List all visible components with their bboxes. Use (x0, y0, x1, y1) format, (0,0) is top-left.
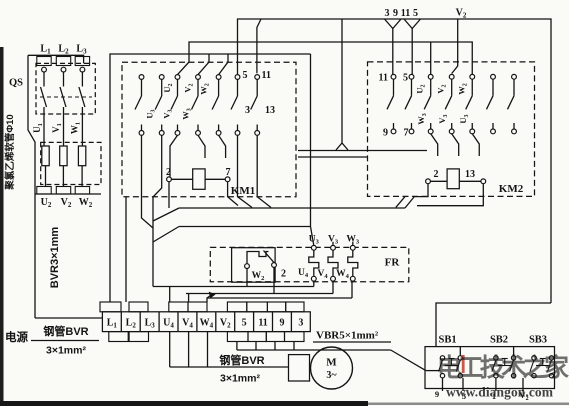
disconnect QS pole 2 blade (63, 72, 65, 87)
terminal strip XT body (102, 312, 310, 332)
contactor KM2 dashed box (368, 62, 535, 197)
KM1 main/aux contact 6 (231, 75, 240, 136)
contactor KM1 dashed box (122, 62, 296, 196)
wire SB terminals up (459, 347, 461, 356)
wire motor cable W4 (207, 332, 209, 367)
svg-text:9: 9 (393, 8, 398, 19)
svg-text:3: 3 (385, 8, 390, 19)
wire KM1 coil A2 down (228, 182, 238, 206)
scan border bottom bar (0, 401, 368, 406)
svg-text:3: 3 (298, 318, 303, 329)
svg-text:SB2: SB2 (490, 335, 508, 346)
wire FR trip right down (273, 267, 275, 293)
svg-text:FR: FR (385, 257, 401, 269)
QS pole 3 terminal lug (75, 57, 89, 66)
wire motor cable U4 (169, 332, 171, 367)
wire left supply riser (28, 55, 35, 318)
svg-text:9: 9 (435, 389, 439, 399)
wire bus C to strip U4 (169, 287, 171, 303)
svg-text:M: M (326, 357, 337, 369)
KM2 main/aux contact 7 (508, 74, 517, 133)
svg-text:聚氯乙烯软管Φ10: 聚氯乙烯软管Φ10 (4, 114, 16, 190)
wire bus H4 (110, 54, 311, 302)
svg-text:5: 5 (413, 8, 418, 19)
coil KM2 (426, 179, 431, 184)
wire jog to bus B (153, 227, 179, 243)
wire bus H1 with right drop (238, 19, 552, 303)
wire riser KM1 contact 11 (257, 19, 261, 73)
wire KM2 col4 out (452, 134, 459, 156)
QS pole 2 bottom lug (56, 187, 70, 195)
FR heater elements U3/V3/W3 (311, 245, 316, 250)
wire control slant to SB (391, 350, 426, 371)
wire KM2 col5 out (472, 134, 479, 156)
KM2 main/aux contact 2 (405, 74, 414, 133)
wire KM2 coil bottom bus (417, 183, 483, 205)
KM2 main/aux contact 3 (424, 74, 433, 133)
svg-text:7: 7 (226, 167, 231, 178)
svg-text:钢管BVR: 钢管BVR (219, 353, 264, 367)
push button SB2 (494, 356, 498, 360)
thermal relay FR dashed box (210, 247, 408, 281)
wire KM1 aux5 down (238, 135, 253, 207)
button station box (425, 347, 555, 389)
svg-text:钢管BVR: 钢管BVR (43, 324, 88, 338)
svg-text:2: 2 (434, 169, 439, 180)
wire bus B (179, 226, 311, 228)
scan border left bar (0, 47, 4, 406)
wire riser KM1 col3 (178, 62, 190, 75)
terminal strip top stubs (100, 302, 121, 312)
wire QS enclosure top (28, 55, 84, 63)
wire SB terminal drops (442, 378, 444, 391)
svg-text:3×1mm²: 3×1mm² (46, 345, 86, 357)
control cable underline (313, 341, 391, 343)
KM1 main/aux contact 5 (212, 75, 221, 136)
QS pole 2 terminal lug (56, 57, 70, 66)
wire V4 drop (332, 281, 334, 293)
svg-text:3: 3 (245, 105, 250, 116)
QS pole 1 bottom lug (37, 187, 51, 195)
wire motor cable V4 (188, 332, 190, 367)
wire merge to KM2 col1 (385, 19, 402, 29)
svg-text:KM2: KM2 (499, 183, 524, 195)
push button SB3 (532, 356, 536, 360)
wire bus C (153, 286, 314, 288)
wire bus B drop to U3 (311, 54, 314, 245)
wire bus C2 (186, 293, 333, 295)
svg-text:11: 11 (262, 70, 271, 81)
motor M 3~ (311, 347, 353, 389)
wire QS enclosure bottom (35, 193, 101, 195)
KM2 main/aux contact 1 (387, 74, 396, 133)
KM2 main/aux contact 5 (466, 74, 475, 133)
wire KM1 col2 down (153, 135, 162, 197)
wire KM1 col5 out (219, 135, 226, 158)
wire U4 drop (313, 281, 315, 286)
watermark red stroke (462, 355, 465, 373)
svg-text:5: 5 (243, 70, 248, 81)
svg-text:13: 13 (265, 105, 275, 116)
svg-text:KM1: KM1 (231, 185, 255, 197)
svg-text:电源: 电源 (5, 330, 28, 344)
wire slant S2 (396, 197, 405, 208)
fuse group dashed box (41, 142, 101, 184)
wire control run (237, 349, 391, 351)
wire riser KM1 col4 (198, 54, 209, 75)
wire KM1 col4 out (198, 135, 205, 158)
FR trip contact W2 (245, 264, 250, 269)
svg-text:11: 11 (258, 318, 267, 329)
wire V2 drop to KM2 col4 (452, 19, 458, 74)
wire KM1 coil A1 down (168, 182, 170, 208)
svg-text:BVR3×1mm: BVR3×1mm (49, 227, 61, 289)
FR trip contact box (232, 248, 276, 283)
KM2 main/aux contact 6 (487, 74, 496, 133)
wire KM1 feeder to strip (125, 197, 127, 302)
wire KM1 col3 out (170, 135, 178, 176)
wire FR trip left down (246, 269, 248, 287)
wire KM2 coil A1 link (414, 183, 428, 196)
fuse FU3 (78, 146, 85, 166)
FR heater top stubs V3 W3 (332, 242, 334, 246)
KM1 main/aux contact 1 (135, 75, 144, 136)
wire SB entry (426, 370, 441, 372)
svg-text:2: 2 (166, 167, 171, 178)
svg-text:3×1mm²: 3×1mm² (220, 373, 260, 385)
disconnect QS pole 2 terminal (61, 67, 66, 72)
svg-text:9: 9 (279, 318, 284, 329)
wire cross bus y150 (298, 150, 427, 152)
wire KM1 left drop (152, 197, 154, 287)
wire bus D (207, 298, 352, 302)
wire merge to KM2 col2 (404, 19, 421, 29)
KM1 main/aux contact 4 (192, 75, 201, 136)
svg-text:www.diangon.com: www.diangon.com (446, 385, 554, 400)
disconnect QS pole 3 blade (81, 72, 83, 87)
svg-text:9: 9 (383, 128, 388, 139)
KM1 main/aux contact 3 (171, 75, 180, 136)
svg-text:SB3: SB3 (529, 335, 547, 346)
wire slant S1 to KM2 coil (405, 197, 414, 208)
svg-text:13: 13 (465, 169, 475, 180)
wire motor cable run (170, 366, 289, 368)
svg-text:3~: 3~ (326, 370, 337, 381)
fuse FU1 (42, 146, 49, 166)
wire H1 to SB drop (436, 303, 551, 347)
svg-text:2: 2 (281, 269, 286, 280)
svg-text:7: 7 (404, 128, 409, 139)
svg-text:VBR5×1mm²: VBR5×1mm² (316, 330, 379, 342)
wire bus y157 into KM2 (298, 156, 368, 158)
disconnect QS pole 1 terminal (42, 67, 47, 72)
svg-text:QS: QS (9, 78, 23, 89)
wire riser KM2 col3 (430, 42, 432, 74)
motor junction box (289, 355, 310, 381)
push button SB1 (440, 356, 444, 360)
svg-text:SB1: SB1 (439, 335, 457, 346)
wire riser KM1 col5 (219, 54, 228, 75)
mains cable fraction line (31, 340, 99, 342)
junction arrow mark (207, 293, 215, 299)
svg-text:11: 11 (379, 73, 388, 84)
svg-text:5: 5 (242, 318, 247, 329)
svg-text:电工技术之家: 电工技术之家 (437, 353, 569, 382)
wire bus C2 to strip V4 (188, 294, 190, 303)
wire mains to strip (35, 317, 102, 319)
QS mechanical link (dashed) (40, 96, 92, 98)
KM2 main/aux contact 4 (445, 74, 454, 133)
terminal strip bottom stubs (109, 332, 128, 342)
KM1 main/aux contact 2 (155, 75, 164, 136)
wire W4 drop (351, 281, 353, 298)
disconnect QS pole 1 blade (43, 72, 45, 87)
svg-text:5: 5 (403, 73, 408, 84)
wire bus A (179, 207, 405, 209)
wire bus H3 (189, 42, 472, 75)
wire H1 drop x342 (341, 19, 343, 143)
wire KM2 col3 out (431, 134, 438, 156)
wire jog to bus A (153, 208, 179, 221)
wire KM1 col1 down (142, 135, 154, 228)
QS pole 1 terminal lug (37, 57, 51, 66)
wire KM1 aux11 down (257, 135, 271, 207)
QS device dashed box (36, 63, 95, 114)
wire control drops (236, 342, 238, 351)
disconnect QS pole 3 terminal (80, 67, 85, 72)
coil KM1 (167, 177, 172, 182)
svg-text:11: 11 (401, 8, 410, 19)
KM1 main/aux contact 7 (251, 75, 260, 136)
fuse FU2 (60, 146, 67, 166)
QS pole 3 bottom lug (75, 187, 89, 195)
